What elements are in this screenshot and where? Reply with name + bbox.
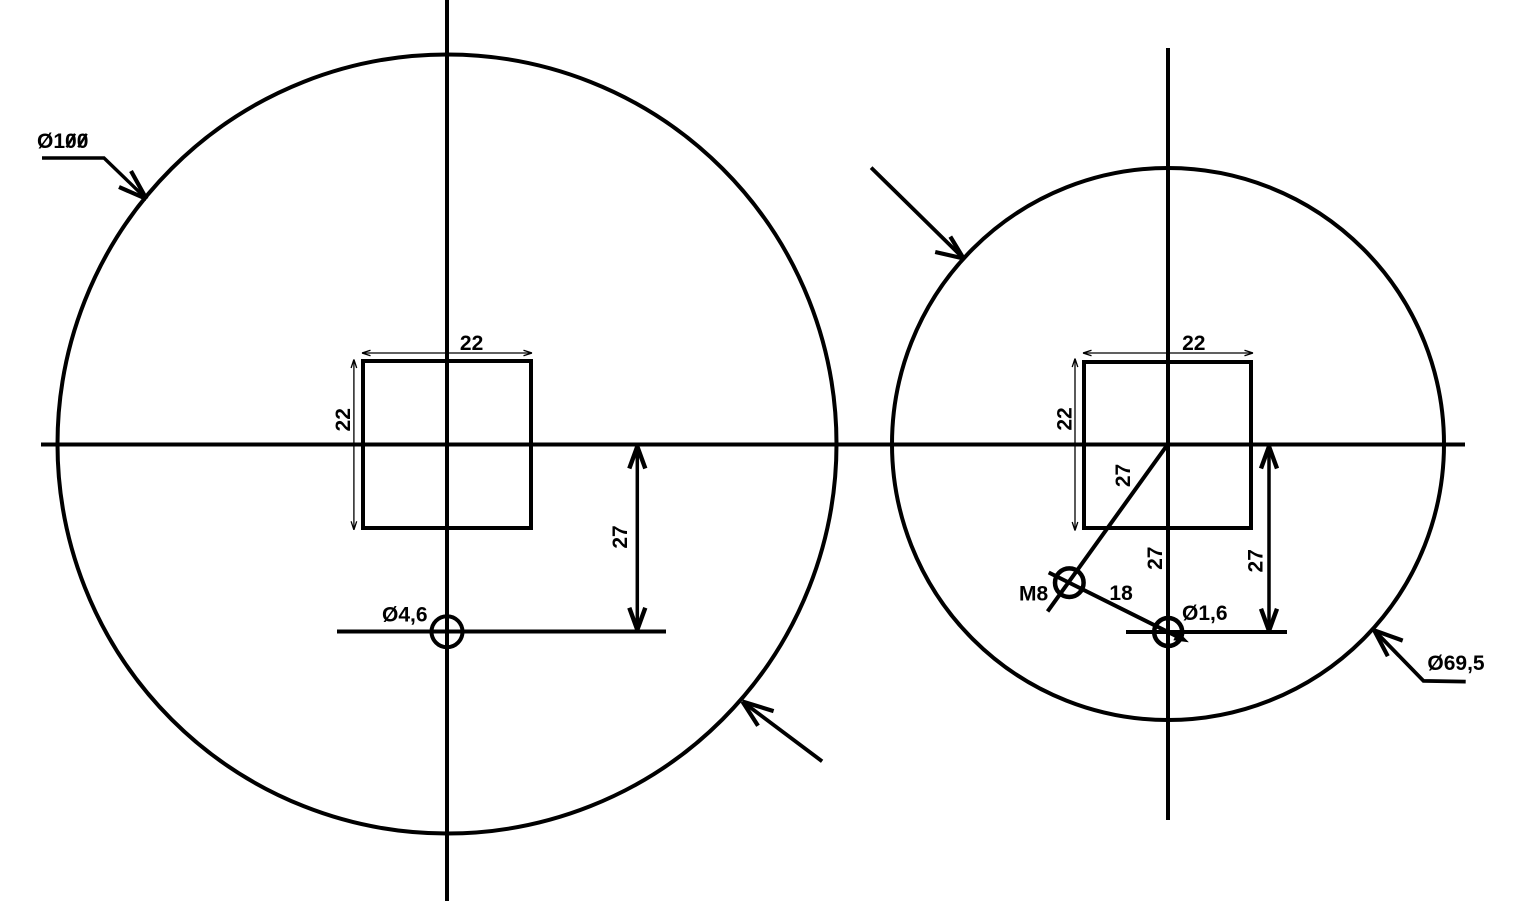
svg-text:22: 22 [460, 332, 483, 355]
leader Ø69,5 arrowhead [1374, 630, 1403, 656]
left square side dimension line [353, 360, 355, 530]
left square top dimension line [362, 352, 532, 354]
left square top dim arrow left [362, 350, 371, 356]
leader arrow upper-left of right circle [871, 168, 964, 259]
leader Ø100 arrowhead [119, 171, 147, 199]
hole Ø1,6 circle [1154, 618, 1182, 646]
right dim 27 arrow top [1261, 447, 1277, 469]
horizontal line through Ø1,6 [1126, 630, 1287, 634]
svg-text:Ø4,6: Ø4,6 [382, 604, 428, 627]
right square top dim arrow left [1083, 350, 1092, 356]
right square side dim arrow bottom [1072, 522, 1078, 531]
dim 27 arrow bottom [629, 608, 645, 630]
dimension 27 line (left view) [636, 447, 640, 630]
left square top dim arrow right [524, 350, 533, 356]
svg-text:27: 27 [1245, 549, 1268, 572]
right square top dim arrow right [1245, 350, 1254, 356]
right dim 27 arrow bottom [1261, 609, 1277, 631]
dimension 27 line (right view right) [1267, 447, 1271, 631]
leader arrow lower-right of left circle [742, 702, 822, 762]
left circle Ø100 outline [58, 55, 837, 834]
horizontal line through Ø4,6 [337, 630, 666, 634]
svg-text:22: 22 [332, 408, 355, 431]
svg-text:22: 22 [1053, 407, 1076, 430]
right circle Ø69,5 outline [892, 168, 1444, 720]
left square side dim arrow bottom [351, 521, 357, 530]
svg-text:27: 27 [1112, 464, 1135, 487]
slashed zero marks of Ø100 [67, 134, 87, 148]
lower-right leader arrowhead [742, 702, 773, 726]
svg-text:27: 27 [609, 525, 632, 548]
svg-text:22: 22 [1182, 332, 1205, 355]
right square side dim arrow top [1072, 359, 1078, 368]
diagonal line 27 from center to M8 [1048, 445, 1168, 612]
svg-text:Ø69,5: Ø69,5 [1427, 652, 1485, 675]
leader line Ø69,5 [1374, 630, 1466, 681]
left square side dim arrow top [351, 360, 357, 369]
svg-text:18: 18 [1109, 582, 1133, 605]
right square 22x22 [1084, 362, 1251, 528]
hole Ø4,6 circle [432, 616, 463, 647]
small arrowhead at end of 18 line [1174, 632, 1187, 642]
svg-text:Ø1,6: Ø1,6 [1182, 602, 1228, 625]
svg-text:27: 27 [1144, 547, 1167, 570]
right vertical centerline [1166, 48, 1170, 820]
right square side dimension line [1074, 359, 1076, 531]
upper-left leader arrowhead [935, 237, 963, 259]
svg-text:M8: M8 [1019, 583, 1048, 606]
left square 22x22 [363, 361, 531, 528]
dim 27 arrow top [629, 447, 645, 469]
right square top dimension line [1083, 352, 1253, 354]
left vertical centerline [445, 0, 449, 901]
leader line Ø100 [42, 158, 147, 199]
line 18 from M8 to Ø1,6 with extension [1049, 573, 1184, 640]
hole M8 circle [1055, 568, 1084, 597]
horizontal centerline [41, 443, 1465, 447]
